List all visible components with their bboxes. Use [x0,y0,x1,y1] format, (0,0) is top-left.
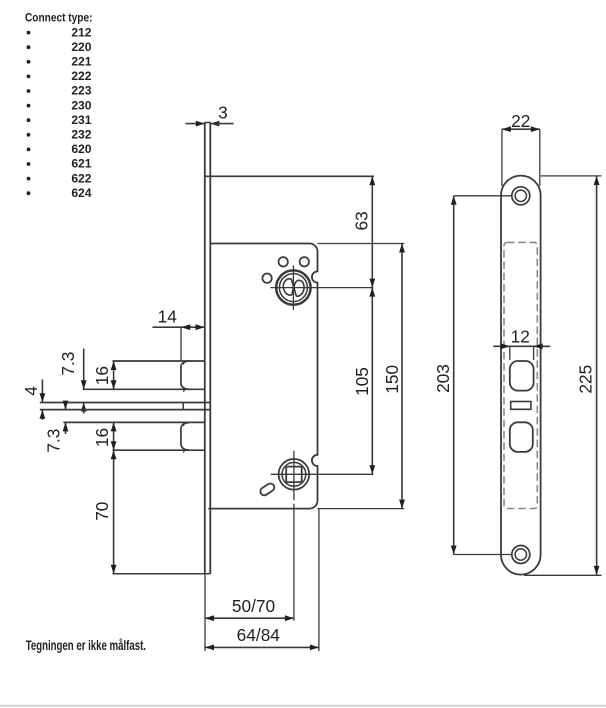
svg-text:Connect type:: Connect type: [25,12,92,25]
svg-text:230: 230 [71,98,91,112]
auxiliary rectangular cutout [511,402,531,410]
deadbolt top edge [63,421,204,423]
dimension 50/70 [205,596,294,621]
faceplate edge view [205,122,211,574]
body top edge extension line [318,243,405,245]
front view faceplate outline [501,176,541,575]
dimension 63 [351,176,375,287]
mounting hole top-left [279,257,288,266]
svg-text:70: 70 [92,502,112,521]
svg-text:624: 624 [71,186,91,200]
svg-text:7.3: 7.3 [43,429,63,453]
svg-text:223: 223 [71,84,91,98]
svg-text:225: 225 [575,365,595,394]
svg-text:14: 14 [158,307,178,327]
bottom separator rule [0,705,606,707]
svg-text:232: 232 [71,128,91,142]
body right edge extension to 64/84 [318,509,320,651]
svg-text:620: 620 [71,142,91,156]
cylinder hub centerline horizontal [271,287,374,289]
body bottom edge extension line [318,508,405,510]
svg-text:50/70: 50/70 [232,596,275,616]
dimension 3 faceplate thickness [186,102,234,126]
svg-text:622: 622 [71,171,91,185]
faceplate bottom extension line [113,573,211,575]
svg-text:220: 220 [71,40,91,54]
dimension 7.3 upper gap [58,349,87,414]
latch cutout [510,361,534,391]
dimension 105 [352,288,375,475]
svg-text:4: 4 [21,386,41,396]
extension line left 50/70 64/84 [204,574,206,651]
square hub outer circle [279,459,310,490]
dimension 225 [524,176,602,575]
latch bolt face [181,361,190,390]
dimension 203 [433,196,512,555]
svg-text:16: 16 [92,428,112,447]
connecting bar top line [40,402,211,404]
deadbolt bottom edge [113,449,205,451]
svg-text:621: 621 [71,157,91,171]
svg-text:16: 16 [92,366,112,385]
connecting bar bottom line [40,409,211,411]
mounting hole left [262,274,271,283]
dimension 12 [493,327,550,360]
square hub centerline horizontal [271,473,374,475]
lock case body outline [208,244,317,509]
latch bolt top edge [113,360,205,362]
footnote [26,639,146,654]
svg-text:7.3: 7.3 [58,352,78,376]
svg-text:150: 150 [382,365,402,394]
square hub inner circle [282,462,306,486]
svg-text:12: 12 [511,327,530,347]
deadbolt face [181,423,190,451]
dimension 16 latch height [92,361,117,389]
mounting hole top-right [300,257,309,266]
svg-text:Tegningen er ikke målfast.: Tegningen er ikke målfast. [26,639,146,654]
connect type list header [25,12,92,25]
svg-text:203: 203 [433,364,453,393]
cylinder hub centerline vertical [292,265,294,310]
top screw hole [512,187,530,205]
connect type list items [27,25,92,200]
dimension 4 bar thickness [21,380,45,420]
svg-text:22: 22 [511,111,530,131]
latch bolt bottom edge [83,388,205,390]
dimension 70 [92,450,116,574]
dimension 7.3 lower gap [43,401,68,453]
svg-text:222: 222 [71,69,91,83]
dimension 64/84 [205,625,319,650]
svg-text:231: 231 [71,113,91,127]
lock case top edge [205,175,374,177]
svg-text:64/84: 64/84 [237,625,281,645]
cylinder hub outer ring [276,270,310,304]
dimension 22 [502,111,540,186]
svg-text:63: 63 [351,211,371,230]
dimension 14 latch projection [153,307,205,360]
hidden lock body dashed outline [504,242,537,508]
svg-text:212: 212 [71,25,91,39]
cylinder hub inner ring [279,274,307,302]
spindle square hole [286,467,302,483]
svg-text:221: 221 [71,55,91,69]
oval hole [259,482,276,497]
svg-text:105: 105 [352,367,372,396]
bottom screw hole [512,546,530,564]
dimension 150 [382,244,405,509]
deadbolt cutout [510,422,533,452]
connecting bar joint [182,403,184,410]
svg-text:3: 3 [218,102,228,122]
dimension 16 deadbolt height [92,422,116,450]
square hub centerline vertical [293,451,295,501]
cylinder profile butterfly [283,279,304,296]
